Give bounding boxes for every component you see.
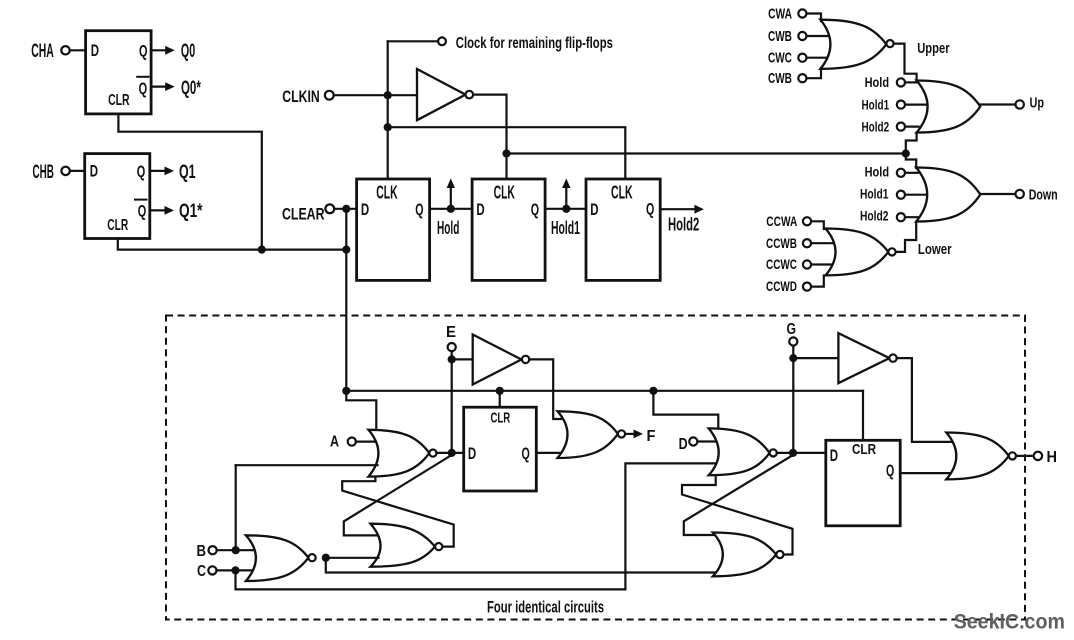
wire U8 to clock node	[906, 133, 917, 154]
wire U3 out	[473, 95, 506, 179]
svg-text:D: D	[590, 200, 598, 219]
flip-flop U6	[586, 179, 660, 280]
node CLKIN tap	[384, 91, 392, 99]
signal Hold1	[551, 179, 580, 239]
svg-text:Hold1: Hold1	[862, 97, 890, 113]
svg-text:Hold2: Hold2	[668, 215, 699, 235]
input Hold1 lower	[860, 186, 928, 202]
svg-text:Q1*: Q1*	[179, 201, 203, 222]
svg-text:D: D	[830, 446, 838, 465]
inverter U11	[452, 335, 530, 385]
flip-flop U19	[826, 440, 900, 526]
nor-gate U15	[246, 535, 316, 581]
node Hold1	[562, 205, 570, 213]
svg-text:C: C	[197, 563, 206, 580]
node CLR join	[258, 246, 266, 254]
inverter U18	[793, 333, 896, 383]
input CWB2	[768, 68, 821, 87]
wire rail L3	[236, 463, 718, 589]
svg-text:CLR: CLR	[491, 410, 511, 427]
nor-gate U20	[713, 533, 784, 577]
wire clock node to U9	[906, 154, 916, 169]
svg-text:Clock for remaining flip-flops: Clock for remaining flip-flops	[456, 35, 613, 52]
svg-text:B: B	[197, 543, 207, 560]
svg-text:Q0: Q0	[181, 41, 195, 62]
or-gate U9 Down	[916, 168, 980, 222]
svg-text:CCWC: CCWC	[766, 257, 797, 272]
svg-text:CCWD: CCWD	[766, 279, 797, 294]
flip-flop U4	[357, 179, 430, 280]
or-gate U21 H	[946, 433, 1016, 480]
wire L1 step to gate A	[346, 391, 376, 428]
svg-text:CHB: CHB	[33, 162, 54, 183]
svg-text:Hold: Hold	[865, 164, 890, 180]
flip-flop U5	[472, 179, 545, 280]
svg-text:D: D	[468, 444, 476, 463]
node clock junction	[902, 149, 910, 157]
svg-text:Hold2: Hold2	[860, 208, 889, 224]
nor-gate U12	[368, 430, 436, 477]
svg-text:Hold: Hold	[865, 74, 890, 90]
input CCWA	[766, 214, 824, 229]
node inverted clock tap	[502, 149, 510, 157]
svg-text:CLK: CLK	[494, 182, 515, 202]
input E	[446, 324, 456, 351]
wire E rail	[451, 351, 453, 453]
wire clock line A	[507, 152, 906, 154]
flip-flop U13	[464, 407, 537, 491]
wire U12 lower input	[236, 464, 378, 466]
wire U13 CLR	[499, 391, 501, 407]
svg-text:Hold: Hold	[437, 218, 459, 238]
svg-text:CWA: CWA	[768, 5, 792, 22]
input CCWB	[766, 236, 838, 251]
svg-text:Q0*: Q0*	[181, 78, 201, 99]
input CLEAR	[282, 204, 357, 223]
svg-text:Q: Q	[886, 461, 894, 480]
wire CLR to CLEAR rail	[262, 249, 347, 251]
svg-text:CWB: CWB	[768, 70, 792, 87]
wire U13 Q to F gate	[536, 452, 567, 454]
svg-text:F: F	[647, 428, 656, 445]
svg-text:Q: Q	[415, 200, 423, 219]
output Q0	[151, 41, 195, 62]
wire cross A-out to U14	[344, 455, 452, 535]
input D	[679, 436, 717, 453]
output H	[1016, 449, 1057, 466]
svg-text:CLKIN: CLKIN	[282, 87, 320, 106]
input Hold upper	[865, 74, 918, 90]
input Hold2 lower	[860, 208, 919, 224]
or-gate U8 Up	[917, 81, 981, 133]
wire cross D-out to U20	[684, 455, 793, 535]
svg-text:CLR: CLR	[107, 217, 128, 234]
nor-gate U7 Upper	[820, 20, 949, 69]
output Hold2	[660, 205, 704, 235]
output Up	[980, 95, 1044, 112]
input CCWD	[766, 276, 824, 295]
watermark	[954, 611, 1065, 634]
node E inv tap	[448, 355, 456, 363]
node B tap	[232, 546, 240, 554]
node Hold	[447, 205, 455, 213]
svg-text:Q: Q	[531, 200, 539, 219]
node latch node G	[789, 449, 797, 457]
svg-text:D: D	[90, 162, 98, 181]
wire U12 out to U13 D	[437, 452, 464, 454]
input CWC	[768, 50, 834, 67]
svg-text:Q: Q	[522, 444, 530, 463]
node U13 CLR tap	[496, 387, 504, 395]
node C tap	[231, 566, 239, 574]
svg-text:CWC: CWC	[768, 50, 792, 67]
wire U15 out to U14	[326, 557, 379, 559]
svg-text:Q: Q	[646, 199, 654, 218]
output Q1	[150, 162, 196, 183]
wire clock line B	[388, 127, 626, 179]
svg-text:Hold1: Hold1	[551, 218, 580, 238]
enclosure four identical circuits	[166, 316, 1025, 620]
svg-text:D: D	[476, 200, 484, 219]
or-gate U16 F	[558, 411, 626, 458]
svg-text:D: D	[679, 436, 688, 453]
wire U5 Q to U6 D	[545, 208, 586, 210]
wire cross U20-out to U17	[682, 475, 793, 554]
input CHA	[31, 41, 85, 62]
svg-text:Down: Down	[1029, 186, 1058, 203]
terminal Clock for remaining flip-flops	[388, 35, 613, 52]
svg-text:Lower: Lower	[918, 241, 952, 258]
svg-text:H: H	[1047, 449, 1058, 466]
node clear rail corner	[342, 387, 350, 395]
output Q0*	[151, 78, 201, 99]
node U15 out	[322, 554, 330, 562]
flip-flop U1	[86, 31, 152, 114]
svg-text:CWB: CWB	[768, 28, 792, 45]
node gate D step tap	[649, 387, 657, 395]
wire CLEAR rail	[345, 209, 347, 391]
input CWA	[768, 5, 821, 22]
svg-text:Hold2: Hold2	[862, 119, 890, 135]
svg-text:Up: Up	[1030, 95, 1045, 112]
nor-gate U10 Lower	[826, 229, 952, 276]
wire U10 out to U9	[896, 223, 917, 252]
svg-text:Q: Q	[139, 42, 148, 61]
wire cross U14-out to U12	[342, 477, 454, 547]
wire U1 CLR	[118, 114, 261, 250]
node CLEAR rail join	[342, 246, 350, 254]
input Hold lower	[865, 164, 918, 180]
svg-text:A: A	[330, 434, 339, 451]
wire U4 Q to U5 D	[430, 208, 473, 210]
nor-gate U14	[371, 524, 443, 567]
input G	[787, 321, 798, 346]
wire U19 CLR	[862, 391, 864, 441]
input Hold1 upper	[862, 97, 929, 113]
node G inv tap	[789, 354, 797, 362]
nor-gate U17	[709, 428, 777, 475]
svg-text:D: D	[91, 41, 99, 60]
output F	[625, 428, 656, 445]
svg-text:CHA: CHA	[31, 41, 54, 62]
svg-text:CLK: CLK	[376, 182, 397, 202]
output Down	[980, 186, 1057, 203]
svg-text:CLK: CLK	[611, 182, 633, 202]
node clock line B tap	[384, 123, 392, 131]
input CCWC	[766, 257, 839, 272]
node CLEAR tap	[342, 205, 350, 213]
wire U7 out to U8	[894, 44, 917, 81]
wire U19 Q to H gate	[900, 472, 953, 474]
svg-text:CLR: CLR	[108, 92, 130, 109]
svg-text:Four identical circuits: Four identical circuits	[487, 598, 604, 617]
input CLKIN	[282, 87, 417, 106]
input Hold2 upper	[862, 119, 919, 135]
inverter U3	[417, 69, 473, 120]
wire U17 out to U19 D	[777, 452, 826, 454]
wire U18 out to H gate	[897, 358, 954, 442]
output Q1*	[150, 201, 203, 222]
svg-text:CCWA: CCWA	[766, 214, 797, 229]
input A	[330, 434, 377, 451]
wire G rail	[792, 346, 794, 453]
flip-flop U2	[85, 154, 150, 239]
svg-text:CCWB: CCWB	[766, 236, 797, 251]
svg-text:E: E	[446, 324, 456, 341]
svg-text:G: G	[787, 321, 797, 338]
signal Hold	[437, 179, 459, 238]
svg-text:D: D	[361, 200, 369, 219]
wire L1 step to gate D	[653, 391, 718, 430]
svg-text:CLEAR: CLEAR	[282, 204, 325, 223]
svg-text:Q: Q	[137, 162, 146, 181]
node latch node E	[448, 449, 456, 457]
wire B feedback riser	[235, 465, 237, 550]
wire U2 CLR	[118, 239, 262, 250]
svg-text:Q1: Q1	[179, 162, 196, 183]
svg-text:Hold1: Hold1	[860, 186, 889, 202]
svg-text:Upper: Upper	[917, 40, 950, 57]
input C	[197, 563, 254, 580]
svg-text:SeekIC.com: SeekIC.com	[954, 611, 1065, 634]
input CWB	[768, 28, 833, 45]
input CHB	[33, 162, 85, 183]
wire rail L2	[326, 558, 721, 573]
wire CLKIN riser	[387, 41, 389, 179]
svg-text:Q: Q	[138, 202, 147, 221]
wire U11 out to F gate	[529, 359, 564, 419]
wire rail L1	[346, 390, 863, 392]
svg-text:Q: Q	[139, 79, 148, 98]
svg-text:CLR: CLR	[852, 441, 876, 458]
input B	[197, 543, 255, 560]
